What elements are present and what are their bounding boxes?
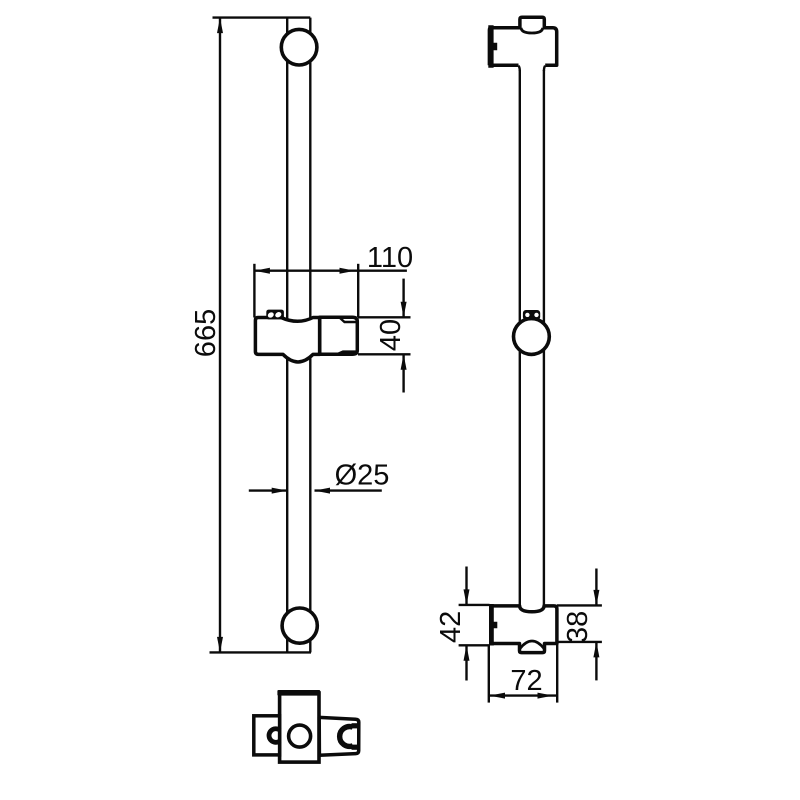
bottom view handset clip (big C) [340,726,358,747]
top wall bracket side view [489,17,556,65]
bottom wall-mount circle [282,608,317,643]
top wall-mount circle [281,29,317,65]
bottom wall bracket side view [490,606,557,653]
svg-text:40: 40 [375,319,407,351]
dimension 40 [358,279,411,393]
svg-text:Ø25: Ø25 [335,460,390,492]
rail bar front view [287,18,310,653]
slider knob side view [514,319,550,355]
rail bottom cap line / bottom extension line [210,651,312,653]
slider release button front view [266,310,284,320]
bottom bracket wall plate (thick edge) [489,604,497,646]
dimension 42 [435,567,490,681]
dimension 665 [190,18,223,653]
svg-text:110: 110 [367,242,413,274]
bottom view left wing [254,716,280,755]
rail top cap line / top extension line [213,16,311,18]
bottom view right wing [319,717,359,755]
bottom view center circle [289,725,311,747]
slider divider line [318,317,322,354]
svg-text:72: 72 [510,665,542,697]
svg-text:665: 665 [190,309,222,357]
slider knob tab side view [523,310,540,320]
handset cradle front view [320,317,358,354]
dimension 110 [254,242,413,318]
top bracket wall plate (thick edge) [488,25,497,68]
slider body front view [255,318,319,362]
svg-text:42: 42 [435,611,467,643]
bottom view top cap (thick) [277,690,320,696]
dimension 72 [489,644,557,703]
bottom view left clip (small c) [269,729,280,743]
dimension 38 [557,569,602,681]
bottom view slider body [280,693,319,762]
rail bar side view [519,66,546,606]
dimension Ø25 [249,460,390,494]
svg-text:38: 38 [562,611,594,643]
